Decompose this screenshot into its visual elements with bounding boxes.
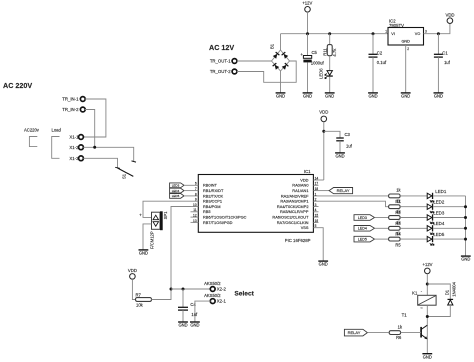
- svg-text:VDD: VDD: [445, 13, 454, 18]
- junction relay D1 top: [426, 283, 429, 286]
- capacitor C2: [369, 54, 378, 57]
- wire select node to X2-2: [171, 288, 211, 290]
- resistor R3: [389, 216, 401, 220]
- svg-text:GND: GND: [368, 94, 377, 99]
- svg-text:LED5: LED5: [358, 237, 367, 241]
- junction VDD C3: [322, 130, 325, 133]
- junction led rail: [464, 216, 467, 219]
- wire LED1 to rail: [433, 195, 465, 197]
- svg-text:RA7/OSC1/CLKIN: RA7/OSC1/CLKIN: [277, 220, 309, 225]
- svg-text:LED4: LED4: [358, 227, 367, 231]
- svg-text:C5: C5: [312, 50, 318, 55]
- ground led rail: [461, 256, 471, 262]
- junction X1-2 / TR_IN-2: [93, 146, 96, 149]
- pin RA4/T0CKI/CMP2: [313, 206, 318, 208]
- svg-text:C1: C1: [442, 51, 448, 56]
- ground C5: [303, 93, 313, 99]
- svg-text:T1: T1: [402, 313, 408, 318]
- wire to D1: [427, 284, 450, 299]
- svg-text:LED4: LED4: [433, 221, 445, 226]
- voltage regulator IC2 7805TV: [388, 28, 424, 46]
- svg-text:GND: GND: [401, 40, 410, 44]
- svg-text:C4: C4: [190, 302, 196, 307]
- capacitor C1: [434, 54, 443, 57]
- svg-text:17: 17: [315, 182, 319, 186]
- wire C4 to ground: [182, 310, 184, 322]
- svg-text:PIC 16F628P: PIC 16F628P: [285, 238, 311, 243]
- svg-text:3: 3: [425, 29, 427, 33]
- power VDD mid: [321, 116, 327, 122]
- ground LED6: [325, 93, 335, 99]
- svg-text:F/CM12P: F/CM12P: [149, 231, 154, 249]
- svg-text:C2: C2: [377, 51, 383, 56]
- svg-text:K1: K1: [412, 291, 418, 296]
- svg-text:RB3/CCP1: RB3/CCP1: [203, 199, 222, 204]
- svg-text:RA4/T0CKI/CMP2: RA4/T0CKI/CMP2: [277, 204, 309, 209]
- svg-text:RB6/T1OSO/T1CKI/PGC: RB6/T1OSO/T1CKI/PGC: [203, 215, 247, 220]
- svg-text:LED3: LED3: [358, 216, 367, 220]
- pin RB7/T1OSI/PGD: [191, 221, 199, 223]
- svg-text:S1: S1: [122, 173, 127, 179]
- svg-text:X1-1: X1-1: [69, 135, 79, 140]
- ground C4: [178, 322, 188, 328]
- wire tag LED3 to pin: [184, 184, 191, 186]
- svg-text:GND: GND: [276, 94, 285, 99]
- led LED1: [427, 193, 434, 202]
- microcontroller IC1: [198, 175, 313, 233]
- net tag LED5 (to IC1): [170, 194, 184, 199]
- junction VO C1: [437, 32, 440, 35]
- svg-text:Load: Load: [52, 128, 62, 133]
- svg-text:GND: GND: [423, 354, 432, 359]
- svg-text:VDD: VDD: [128, 268, 137, 273]
- svg-text:RA1/AN1: RA1/AN1: [292, 188, 308, 193]
- svg-text:RB1/RX/DT: RB1/RX/DT: [203, 188, 224, 193]
- buzzer SP1: [152, 211, 163, 230]
- svg-text:1N4004: 1N4004: [452, 281, 457, 296]
- capacitor C3: [336, 138, 344, 141]
- svg-text:15: 15: [315, 214, 319, 218]
- svg-text:AKS50/2: AKS50/2: [204, 281, 221, 286]
- junction select node: [170, 288, 173, 291]
- wire rail to C2: [372, 34, 374, 55]
- net tag RELAY (driver): [344, 329, 367, 336]
- svg-text:18: 18: [315, 187, 319, 191]
- svg-text:4.7k: 4.7k: [332, 48, 337, 57]
- svg-text:IC1: IC1: [304, 169, 311, 174]
- wire LED4 to rail: [433, 227, 465, 229]
- pin RA2/AN2/VREF: [313, 195, 318, 197]
- svg-text:GND: GND: [335, 154, 344, 159]
- junction rail R11: [328, 32, 331, 35]
- svg-text:LED3: LED3: [172, 184, 180, 188]
- svg-text:RA2/AN2/VREF: RA2/AN2/VREF: [281, 193, 309, 198]
- svg-text:+12V: +12V: [423, 262, 433, 267]
- svg-text:GND: GND: [434, 94, 443, 99]
- svg-text:TR_OUT-1: TR_OUT-1: [210, 59, 231, 64]
- pin RB3/CCP1: [191, 200, 199, 202]
- svg-text:+: +: [300, 52, 303, 57]
- pin RB0INT: [191, 184, 199, 186]
- terminal TR_IN-1: [80, 97, 85, 102]
- net tag RELAY (at IC1): [329, 188, 353, 194]
- svg-text:1: 1: [315, 192, 317, 196]
- resistor R4: [389, 226, 401, 230]
- terminal X1-3: [79, 156, 84, 161]
- wire C5 to ground: [307, 62, 309, 92]
- terminal X2-2: [210, 287, 215, 292]
- wire TR_OUT-2 to bridge: [237, 61, 297, 82]
- net tag LED4 (to IC1): [170, 188, 184, 193]
- terminal X2-1: [210, 299, 215, 304]
- pin RB4/PGM: [191, 206, 199, 208]
- ground IC2: [401, 93, 411, 99]
- power +12V relay: [425, 268, 431, 274]
- ground X2-1: [190, 322, 200, 328]
- net tag LED4: [354, 226, 375, 232]
- pin VDD: [313, 179, 318, 181]
- wire R2 to LED2: [400, 206, 427, 208]
- svg-text:LED3: LED3: [433, 210, 445, 215]
- junction led rail: [464, 205, 467, 208]
- svg-text:RB5: RB5: [203, 209, 211, 214]
- pin RA3/AN3/CMP1: [313, 200, 318, 202]
- wire emitter to ground: [426, 340, 428, 354]
- pin VSS: [313, 227, 318, 229]
- wire C3 to ground: [339, 141, 341, 153]
- svg-text:TR_OUT-2: TR_OUT-2: [210, 69, 231, 74]
- svg-text:GND: GND: [190, 323, 199, 328]
- svg-text:RB0INT: RB0INT: [203, 183, 217, 188]
- svg-text:LED4: LED4: [172, 189, 180, 193]
- svg-text:B1: B1: [270, 43, 275, 49]
- net tag LED3: [354, 215, 375, 221]
- wire tag to R3: [375, 217, 389, 219]
- wire X1-3 to switch pole: [83, 158, 117, 168]
- wire to C3: [324, 131, 340, 138]
- terminal TR_OUT-2: [232, 69, 237, 74]
- svg-text:4: 4: [315, 208, 317, 212]
- wire LED3 to rail: [433, 217, 465, 219]
- led LED6: [325, 71, 333, 79]
- wire RB3 to buzzer +: [143, 201, 191, 217]
- svg-text:RA5/MCLR/VPP: RA5/MCLR/VPP: [280, 209, 309, 214]
- svg-text:GND: GND: [178, 323, 187, 328]
- svg-text:RELAY: RELAY: [348, 330, 361, 335]
- bracket Load: [52, 137, 60, 159]
- svg-text:GND: GND: [401, 94, 410, 99]
- pin RB5: [191, 211, 199, 213]
- wire +12V to relay: [426, 274, 428, 296]
- resistor R11: [327, 45, 332, 56]
- svg-text:VSS: VSS: [301, 225, 309, 230]
- pin RA5/MCLR/VPP: [313, 211, 318, 213]
- pin RB6/T1OSO/T1CKI/PGC: [191, 216, 199, 218]
- svg-text:X2-1: X2-1: [217, 299, 227, 304]
- svg-text:8: 8: [195, 192, 197, 196]
- capacitor C4: [178, 307, 188, 310]
- wire R5 to LED5: [400, 238, 427, 240]
- svg-text:X1-3: X1-3: [69, 156, 79, 161]
- wire VDD pin: [319, 179, 324, 181]
- wire RA3 to R2: [319, 201, 389, 207]
- wire LED5 to rail: [433, 238, 465, 240]
- svg-text:LED6: LED6: [319, 68, 324, 79]
- svg-text:3: 3: [315, 203, 317, 207]
- wire +12V to rail: [307, 12, 309, 34]
- svg-text:RB7/T1OSI/PGD: RB7/T1OSI/PGD: [203, 220, 233, 225]
- power VDD top right: [447, 18, 453, 24]
- junction led rail: [464, 238, 467, 241]
- capacitor C5: [300, 52, 311, 62]
- wire VDD to R7: [132, 279, 135, 299]
- wire R4 to LED4: [400, 227, 427, 229]
- svg-text:R11: R11: [322, 48, 327, 56]
- svg-text:D1: D1: [445, 289, 450, 295]
- bridge rectifier B1: [272, 50, 290, 71]
- terminal TR_IN-2: [80, 107, 85, 112]
- svg-text:X1-2: X1-2: [69, 145, 79, 150]
- ground C2: [368, 93, 378, 99]
- wire R3 to LED3: [400, 217, 427, 219]
- svg-text:14: 14: [315, 176, 319, 180]
- led LED4: [427, 225, 434, 234]
- resistor R5: [389, 237, 401, 241]
- svg-text:VO: VO: [415, 32, 421, 36]
- wire +12V rail: [281, 33, 389, 35]
- svg-text:11: 11: [193, 208, 197, 212]
- svg-text:AC220v: AC220v: [24, 128, 40, 133]
- svg-text:C3: C3: [345, 132, 351, 137]
- net tag LED3 (to IC1): [170, 183, 184, 188]
- ground SP1: [139, 250, 149, 256]
- svg-text:RELAY: RELAY: [337, 188, 350, 193]
- wire VDD down to IC1: [323, 122, 325, 180]
- svg-text:R6: R6: [396, 335, 402, 340]
- svg-text:13: 13: [193, 219, 197, 223]
- wire X2-1 to ground: [195, 301, 211, 322]
- terminal X1-1: [79, 135, 84, 140]
- led LED3: [427, 214, 434, 223]
- wire TR_IN-2 down: [85, 110, 95, 148]
- wire X1-2 to switch contact: [83, 147, 134, 161]
- svg-text:LED5: LED5: [172, 194, 180, 198]
- wire bridge top to rail: [280, 34, 282, 50]
- wire C2 to ground: [372, 57, 374, 93]
- svg-text:TR_IN-2: TR_IN-2: [62, 107, 79, 112]
- switch S1: [115, 161, 136, 177]
- wire R1 to LED1: [400, 195, 427, 197]
- svg-text:LED1: LED1: [435, 189, 447, 194]
- led LED5: [427, 236, 434, 245]
- ground C1: [434, 93, 444, 99]
- wire RA1 to RELAY tag: [319, 190, 330, 192]
- wire down to C4: [182, 289, 184, 307]
- resistor R7: [136, 298, 152, 302]
- svg-text:RA6/OSC2/CLKOUT: RA6/OSC2/CLKOUT: [272, 215, 309, 220]
- junction D1 collector: [426, 315, 429, 318]
- junction rail C5: [306, 32, 309, 35]
- svg-text:+12V: +12V: [302, 1, 312, 6]
- svg-text:0.1uf: 0.1uf: [377, 60, 387, 65]
- svg-text:2: 2: [407, 47, 409, 51]
- svg-text:GND: GND: [139, 251, 148, 256]
- wire relay to transistor: [426, 305, 428, 339]
- ground bridge: [276, 93, 286, 99]
- wire VO to VDD: [424, 23, 450, 33]
- resistor R6: [389, 331, 400, 335]
- wire VSS to ground: [319, 228, 324, 261]
- svg-text:GND: GND: [319, 262, 328, 267]
- net tag LED5: [354, 236, 375, 242]
- ground T1: [422, 354, 432, 360]
- svg-text:RB4/PGM: RB4/PGM: [203, 204, 221, 209]
- svg-text:GND: GND: [303, 94, 312, 99]
- pin RB1/RX/DT: [191, 190, 199, 192]
- svg-text:GND: GND: [461, 257, 470, 262]
- pin RA7/OSC1/CLKIN: [313, 221, 318, 223]
- wire bridge bottom to ground: [280, 71, 282, 93]
- svg-text:7805TV: 7805TV: [389, 23, 404, 28]
- svg-text:R5: R5: [395, 242, 401, 247]
- svg-text:LED5: LED5: [433, 232, 445, 237]
- svg-text:TR_IN-1: TR_IN-1: [62, 97, 79, 102]
- led LED2: [427, 204, 434, 213]
- svg-text:16: 16: [315, 219, 319, 223]
- wire buzzer - to ground: [143, 224, 152, 250]
- svg-text:AC 220V: AC 220V: [3, 81, 32, 90]
- power +12V top: [305, 7, 311, 13]
- wire tag LED4 to pin: [184, 190, 191, 192]
- svg-text:10: 10: [193, 203, 197, 207]
- wire IC2 GND pin to ground: [405, 45, 407, 93]
- svg-text:RA3/AN3/CMP1: RA3/AN3/CMP1: [280, 199, 308, 204]
- wire LED2 to rail: [433, 206, 465, 208]
- junction rail C2: [372, 32, 375, 35]
- svg-text:2: 2: [315, 198, 317, 202]
- wire rail to C5: [307, 34, 309, 56]
- svg-text:R7: R7: [136, 292, 142, 297]
- wire RA2 to R1: [319, 195, 389, 197]
- ground IC1: [318, 261, 328, 267]
- svg-text:RA0/AN0: RA0/AN0: [292, 183, 309, 188]
- wire tag to R4: [375, 227, 389, 229]
- diode D1: [448, 299, 454, 305]
- relay K1: [418, 295, 436, 305]
- resistor R2: [389, 205, 401, 209]
- svg-text:1: 1: [385, 29, 387, 33]
- terminal X1-2: [79, 145, 84, 150]
- wire led cathode rail: [465, 196, 467, 256]
- wire tag to R5: [375, 238, 389, 240]
- svg-text:7: 7: [195, 187, 197, 191]
- svg-text:VI: VI: [391, 32, 395, 36]
- svg-text:GND: GND: [325, 94, 334, 99]
- svg-text:Select: Select: [234, 291, 254, 298]
- ground C3: [335, 153, 345, 159]
- svg-text:1uf: 1uf: [444, 60, 451, 65]
- svg-text:12: 12: [193, 214, 197, 218]
- wire TR_OUT-1 to bridge: [237, 60, 272, 62]
- svg-text:RB2/TX/CK: RB2/TX/CK: [203, 193, 224, 198]
- svg-text:LED2: LED2: [433, 200, 445, 205]
- pin RA1/AN1: [313, 190, 318, 192]
- wire LED6 to ground: [329, 77, 331, 93]
- transistor T1: [421, 325, 427, 339]
- svg-text:SP1: SP1: [163, 211, 168, 220]
- wire R6 to base: [401, 332, 422, 334]
- power VDD left: [130, 274, 136, 280]
- wire D1 to collector node: [427, 305, 450, 317]
- wire R7 to select node: [151, 289, 171, 300]
- svg-text:VDD: VDD: [319, 110, 328, 115]
- svg-text:9: 9: [195, 198, 197, 202]
- junction C4: [182, 288, 185, 291]
- pin RA6/OSC2/CLKOUT: [313, 216, 318, 218]
- wire junction to C1: [437, 34, 439, 55]
- svg-text:6: 6: [195, 182, 197, 186]
- wire RB4 down to select node: [171, 207, 191, 290]
- wire tag LED5 to pin: [184, 195, 191, 197]
- svg-text:VDD: VDD: [300, 177, 308, 182]
- bracket AC220v: [29, 137, 37, 147]
- resistor R1: [389, 194, 401, 198]
- wire C1 to ground: [437, 57, 439, 93]
- pin RA0/AN0: [313, 184, 318, 186]
- terminal TR_OUT-1: [232, 59, 237, 64]
- svg-text:X2-2: X2-2: [217, 287, 227, 292]
- wire RELAY tag to R6: [367, 332, 388, 334]
- wire R11 to LED6: [329, 56, 331, 71]
- svg-text:AKS50/2: AKS50/2: [204, 293, 221, 298]
- svg-text:5: 5: [315, 224, 317, 228]
- pin RB2/TX/CK: [191, 195, 199, 197]
- svg-text:1uf: 1uf: [346, 144, 353, 149]
- svg-text:10k: 10k: [136, 302, 144, 307]
- junction led rail: [464, 227, 467, 230]
- svg-text:AC 12V: AC 12V: [209, 43, 234, 52]
- wire rail to R11: [329, 34, 331, 45]
- wire TR_IN-1 to X1-1: [83, 99, 106, 137]
- svg-text:1000uf: 1000uf: [311, 61, 325, 66]
